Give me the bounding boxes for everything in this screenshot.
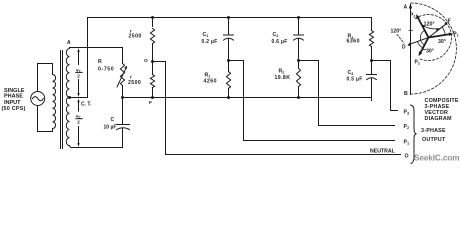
wire C2R2 node to P2 terminal [299, 61, 395, 126]
svg-text:120°: 120° [391, 29, 402, 35]
resistor R3 6360 [369, 18, 373, 61]
resistor r 2500 lower [150, 75, 154, 98]
svg-text:P1: P1 [453, 32, 458, 38]
svg-text:P1: P1 [404, 140, 410, 146]
node junction dot R3-C3 [370, 59, 373, 62]
middle rail [123, 98, 372, 101]
node junction dot C2-R2 [297, 59, 300, 62]
svg-text:P3: P3 [410, 13, 415, 19]
svg-text:3-PHASE: 3-PHASE [421, 128, 446, 134]
wire node A to potentiometer [70, 48, 123, 49]
svg-text:30°: 30° [426, 49, 434, 55]
label C2 0.6uF [272, 32, 288, 45]
svg-text:C3: C3 [348, 70, 354, 76]
label 3-phase output [421, 128, 446, 143]
angle arc 30 right [442, 27, 446, 35]
svg-text:R: R [98, 59, 102, 65]
svg-text:2500: 2500 [128, 80, 141, 86]
svg-text:A: A [404, 5, 408, 11]
label e2/2 upper [76, 67, 81, 78]
svg-text:PHASE: PHASE [4, 94, 23, 100]
svg-text:R2: R2 [279, 69, 285, 75]
svg-text:C2: C2 [273, 32, 279, 38]
label r 2500 upper [129, 28, 142, 39]
pointer 30 bottom [422, 49, 426, 51]
svg-text:B: B [404, 91, 408, 97]
svg-text:C: C [111, 117, 115, 123]
dimension arrow e2/2 upper [77, 48, 79, 97]
svg-text:SeekIC.com: SeekIC.com [414, 154, 459, 163]
vector F (thin) [429, 22, 448, 38]
label e2/2 lower [76, 114, 81, 125]
brace 3-phase output [409, 105, 417, 165]
dimension arrow e2/2 lower [77, 99, 79, 147]
svg-text:4260: 4260 [204, 79, 218, 85]
label C1 0.2uF [202, 32, 218, 45]
label: single phase input text [2, 88, 26, 112]
svg-text:2500: 2500 [129, 34, 142, 40]
svg-text:P3: P3 [404, 110, 410, 116]
capacitor C3 [367, 61, 377, 98]
top rail [88, 17, 372, 19]
svg-text:F: F [448, 19, 451, 25]
label R1 4260 [204, 73, 218, 85]
dashed leader to D [397, 35, 404, 44]
dashed arc inner [415, 15, 451, 61]
node C.T. junction dot [68, 96, 71, 99]
angle arc 120 left [420, 30, 424, 44]
wire R3C3 node to P3 terminal [372, 61, 398, 111]
svg-text:120°: 120° [424, 22, 435, 28]
label R3 6360 [347, 34, 361, 45]
pointer 120 left [409, 29, 413, 31]
svg-text:OUTPUT: OUTPUT [422, 137, 446, 143]
wire transformer bottom to capacitor bottom [70, 146, 123, 148]
svg-text:0.6 µF: 0.6 µF [272, 39, 288, 45]
resistor R1 4260 [226, 61, 230, 98]
vector P1 (bold) [429, 33, 454, 38]
potentiometer R 0-750 [117, 48, 127, 98]
label C3 0.5uF [347, 70, 363, 83]
svg-text:0.5 µF: 0.5 µF [347, 77, 363, 83]
svg-text:6360: 6360 [347, 39, 361, 45]
wire center tap to top rail [70, 18, 88, 98]
svg-text:DIAGRAM: DIAGRAM [425, 116, 452, 122]
transformer T1 primary winding [53, 75, 56, 129]
svg-text:O: O [144, 58, 148, 64]
svg-text:(50 CPS): (50 CPS) [2, 106, 26, 112]
wire C1R1 node to P1 terminal [229, 61, 395, 141]
dashed circle outer [411, 3, 456, 94]
svg-text:0-750: 0-750 [98, 67, 114, 73]
label R2 19.8K [275, 69, 291, 82]
capacitor C1 [224, 18, 234, 61]
svg-text:INPUT: INPUT [4, 100, 21, 106]
transformer T1 secondary winding [66, 49, 69, 146]
svg-text:0.2 µF: 0.2 µF [202, 39, 218, 45]
capacitor C2 [294, 18, 304, 61]
svg-text:P2: P2 [404, 124, 410, 130]
junction dot mid rail x122 [121, 96, 124, 99]
svg-text:F: F [149, 100, 152, 106]
label R 0-750 [98, 59, 114, 73]
svg-text:D: D [402, 44, 406, 50]
svg-text:19.8K: 19.8K [275, 75, 291, 81]
wire node O to neutral line [153, 62, 401, 155]
svg-text:COMPOSITE: COMPOSITE [425, 98, 459, 104]
svg-text:O: O [405, 154, 409, 160]
resistor r 2500 upper [150, 18, 154, 75]
svg-text:3-PHASE: 3-PHASE [425, 104, 450, 110]
label C 10uF [104, 117, 117, 131]
svg-text:30°: 30° [438, 39, 446, 45]
junction dots middle rail [151, 96, 154, 99]
capacitor C 10uF [117, 98, 130, 148]
node junction dot C1-R1 [227, 59, 230, 62]
svg-text:P2: P2 [415, 60, 420, 66]
vector P2 (bold) [419, 38, 429, 57]
vector D (thin) [407, 38, 428, 47]
wire primary loop [38, 64, 53, 132]
vector P3 (bold) [416, 14, 428, 37]
vector diagram axis A-B [409, 3, 412, 95]
transformer T1 core [61, 51, 63, 149]
label r 2500 lower [128, 75, 141, 86]
angle arc 120 top [422, 25, 439, 29]
angle arc 30 bottom [417, 42, 423, 49]
svg-text:A: A [67, 40, 71, 46]
svg-text:10 µF: 10 µF [104, 125, 117, 131]
svg-text:VECTOR: VECTOR [425, 110, 449, 116]
svg-text:C. T.: C. T. [81, 102, 92, 108]
node O junction dot [151, 60, 154, 63]
svg-text:NEUTRAL: NEUTRAL [370, 149, 396, 155]
label composite 3-phase vector diagram [425, 98, 459, 122]
svg-text:2: 2 [77, 120, 80, 125]
junction dots top rail [151, 16, 154, 19]
AC source G1 [31, 92, 45, 106]
svg-text:2: 2 [77, 73, 80, 78]
svg-text:C1: C1 [203, 32, 209, 38]
resistor R2 19.8K [296, 61, 300, 98]
